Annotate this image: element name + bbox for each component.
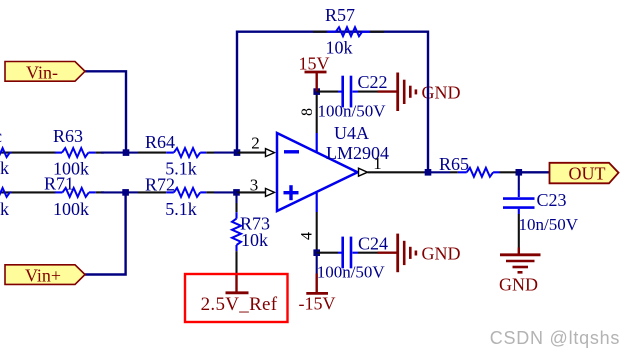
wire R73 top: [235, 192, 237, 212]
label R71: [44, 174, 74, 194]
wire row1 (junction to pin2): [237, 152, 266, 154]
label 15V: [299, 54, 330, 74]
power 2.5V_Ref bar: [226, 274, 249, 293]
svg-text:k: k: [0, 199, 9, 219]
pin 8 number: [299, 108, 316, 116]
resistor R73: [232, 212, 241, 251]
pin 2 arrow: [266, 149, 275, 157]
svg-text:100k: 100k: [53, 199, 89, 219]
value 5.1k (R64): [165, 159, 197, 179]
watermark CSDN: [490, 328, 620, 348]
pin 4 line: [316, 193, 318, 212]
label R72: [145, 175, 175, 195]
wire R73 bottom: [235, 251, 237, 274]
wire C23 top: [518, 172, 520, 197]
svg-text:CSDN @ltqshs: CSDN @ltqshs: [490, 328, 620, 348]
svg-text:10n/50V: 10n/50V: [519, 215, 579, 234]
svg-text:GND: GND: [422, 244, 461, 264]
pin 3 number: [250, 176, 259, 195]
svg-text:R63: R63: [53, 126, 83, 146]
ground (sideways) at C22: [398, 73, 416, 112]
net flag Vin-: [5, 62, 85, 82]
ground (earth) at C23: [500, 255, 541, 272]
label LM2904: [326, 143, 389, 163]
svg-text:5.1k: 5.1k: [165, 199, 197, 219]
wire row1 mid (R63 to junction): [101, 152, 126, 154]
wire row2 (junction to pin3): [237, 191, 266, 193]
value partial k row2: [0, 199, 9, 219]
junction row1/Vin-: [123, 149, 130, 156]
wire Vin+ vertical: [85, 192, 126, 274]
value partial k row1: [0, 158, 9, 178]
resistor partial left row1: [0, 148, 11, 157]
wire row2 (R72 to R73 junction): [214, 191, 237, 193]
value 10k (R73): [241, 230, 268, 250]
svg-text:-15V: -15V: [299, 294, 336, 314]
label -15V: [299, 294, 336, 314]
svg-text:Vin+: Vin+: [25, 266, 61, 286]
resistor R57: [327, 27, 370, 36]
svg-text:OUT: OUT: [569, 164, 606, 184]
wire row2 mid (R71 to junction): [101, 191, 126, 193]
wire (R65 to C23 junction): [516, 171, 519, 173]
label C23: [537, 190, 567, 210]
value 100n/50V (C22): [318, 102, 387, 121]
resistor R65: [458, 168, 516, 177]
label U4A: [334, 123, 369, 143]
wire output (pin1 to feedback junction): [368, 171, 429, 173]
wire row2 (junction to R72): [126, 191, 167, 193]
op-amp U4A: [277, 133, 358, 211]
value 100k (R63): [53, 159, 89, 179]
junction row1/feedback: [234, 149, 241, 156]
svg-text:100n/50V: 100n/50V: [317, 263, 386, 282]
wire row1 (R64 to feedback junction): [214, 152, 237, 154]
highlight box (red): [185, 274, 288, 322]
svg-text:C24: C24: [358, 234, 388, 254]
svg-text:2: 2: [251, 134, 260, 153]
svg-text:R72: R72: [145, 175, 175, 195]
resistor partial left row2: [0, 188, 11, 197]
pin 8 line: [316, 133, 318, 152]
value 100k (R71): [53, 199, 89, 219]
wire pin4 to -15V junction: [316, 212, 318, 253]
junction -15V/C24: [313, 249, 320, 256]
wire pin8 to 15V junction: [316, 92, 318, 133]
label R65: [439, 154, 469, 174]
label Vin+: [25, 266, 61, 286]
net flag OUT: [550, 163, 619, 184]
power 15V: [305, 72, 327, 92]
svg-text:GND: GND: [499, 275, 538, 295]
svg-text:R64: R64: [145, 132, 175, 152]
wire C23 bottom: [518, 209, 520, 254]
pin 2 number: [251, 134, 260, 153]
value 10n/50V (C23): [519, 215, 579, 234]
resistor R64: [166, 148, 214, 157]
label R64: [145, 132, 175, 152]
wire Vin- vertical: [85, 71, 126, 152]
wire C22 left: [317, 91, 343, 93]
label OUT: [569, 164, 606, 184]
pin 3 arrow: [266, 188, 275, 196]
capacitor C22: [343, 76, 351, 108]
value 100n/50V (C24): [317, 263, 386, 282]
svg-text:3: 3: [250, 176, 259, 195]
svg-text:U4A: U4A: [334, 123, 369, 143]
svg-text:k: k: [0, 158, 9, 178]
junction row2/R73: [233, 189, 240, 196]
wire R57 leads: [313, 31, 384, 33]
label C22: [358, 72, 388, 92]
svg-text:C23: C23: [537, 190, 567, 210]
wire (junction to R65): [428, 171, 458, 173]
label R73: [240, 214, 270, 234]
junction row2/Vin+: [122, 189, 129, 196]
capacitor C23: [503, 199, 535, 208]
resistor R72: [166, 188, 214, 197]
pin 4 number: [299, 232, 316, 240]
junction output/feedback: [425, 169, 432, 176]
svg-text:R65: R65: [439, 154, 469, 174]
junction 15V/C22: [313, 88, 320, 95]
label R57: [325, 5, 355, 25]
label 2.5V_Ref: [201, 294, 278, 315]
svg-text:Vin-: Vin-: [26, 63, 58, 83]
value 10k (R57): [326, 38, 353, 58]
feedback wire (loop): [237, 32, 428, 173]
ground (sideways) at C24: [398, 234, 416, 273]
resistor R63: [55, 148, 104, 157]
label Vin-: [26, 63, 58, 83]
wire row1 left (to R63): [0, 152, 56, 154]
svg-text:10k: 10k: [241, 230, 268, 250]
pin 1 number: [373, 154, 382, 173]
svg-text:1: 1: [373, 154, 382, 173]
wire C24 left: [317, 252, 343, 254]
capacitor C24: [343, 237, 351, 269]
net flag Vin+: [5, 265, 85, 285]
label partial glyph left edge: [0, 126, 2, 146]
label GND (bottom right): [499, 275, 538, 295]
junction output/C23: [516, 169, 523, 176]
svg-text:8: 8: [299, 108, 316, 116]
label R63: [53, 126, 83, 146]
svg-text:100n/50V: 100n/50V: [318, 102, 387, 121]
svg-text:c: c: [0, 126, 2, 146]
wire C24 right to GND: [353, 252, 397, 254]
wire (junction to OUT flag): [519, 171, 550, 173]
svg-text:10k: 10k: [326, 38, 353, 58]
resistor R71: [55, 188, 104, 197]
svg-text:C22: C22: [358, 72, 388, 92]
power -15V: [306, 253, 328, 294]
svg-text:2.5V_Ref: 2.5V_Ref: [201, 294, 278, 315]
label C24: [358, 234, 388, 254]
svg-text:4: 4: [299, 232, 316, 240]
value 5.1k (R72): [165, 199, 197, 219]
svg-text:R57: R57: [325, 5, 355, 25]
svg-text:R71: R71: [44, 174, 74, 194]
label GND (top): [422, 83, 461, 103]
pin 1 output arrow: [359, 168, 368, 176]
wire C22 right to GND: [353, 91, 397, 93]
wire row1 (junction to R64): [126, 152, 166, 154]
wire row2 left (to R71): [0, 191, 56, 193]
label GND (bottom middle): [422, 244, 461, 264]
